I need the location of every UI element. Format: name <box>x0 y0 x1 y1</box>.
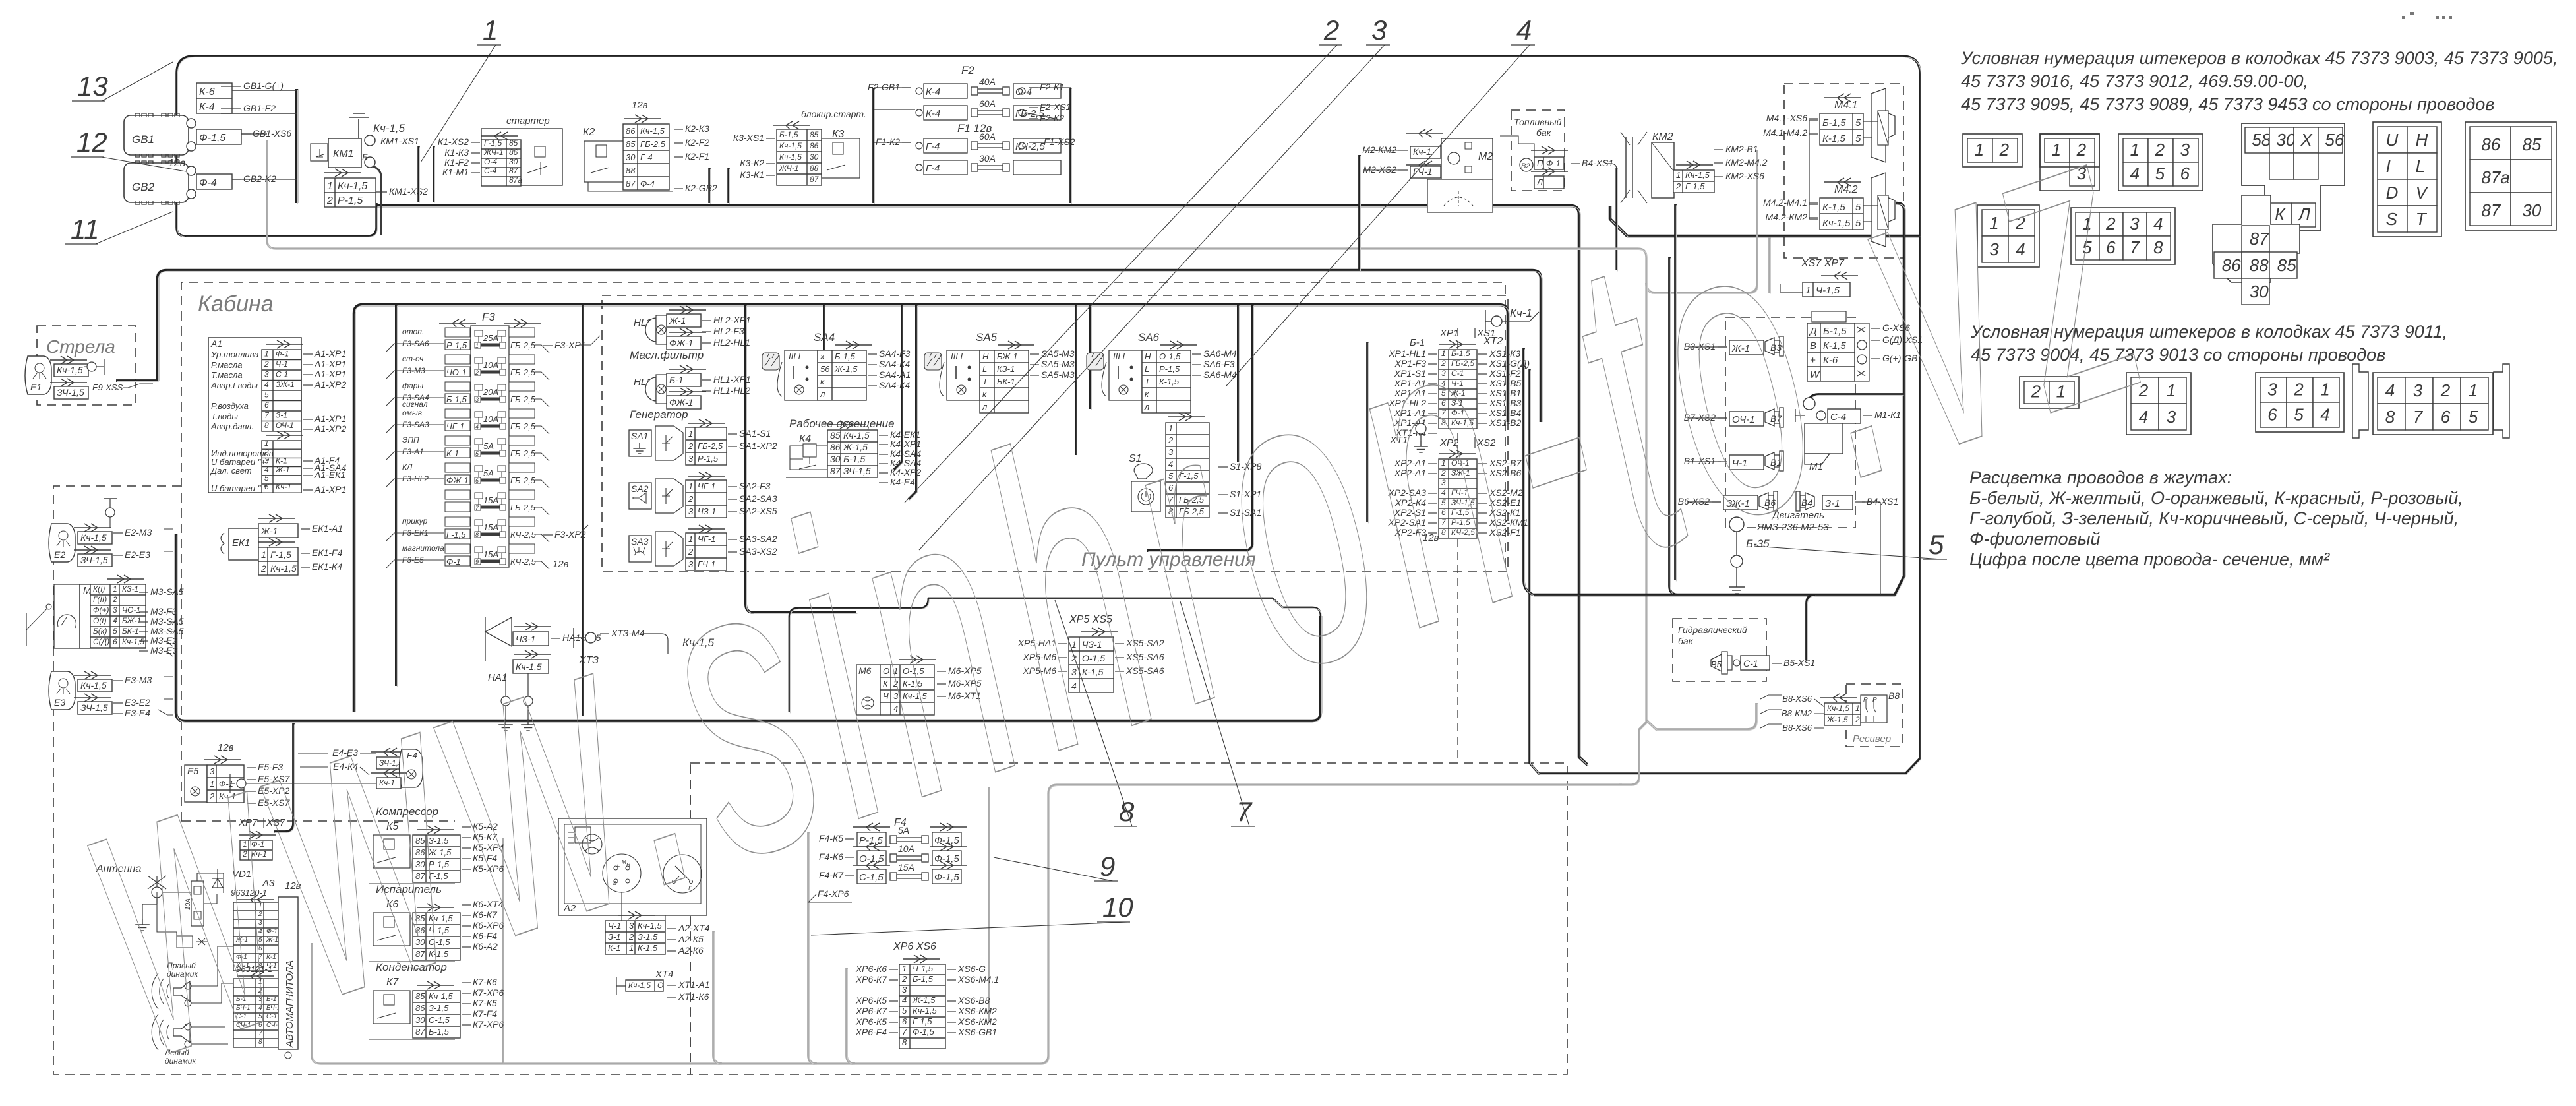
svg-text:F2-К1: F2-К1 <box>1040 82 1064 92</box>
svg-text:стартер: стартер <box>506 115 550 127</box>
lamp E2 <box>49 524 75 562</box>
svg-text:ХР6-К7: ХР6-К7 <box>855 1006 887 1016</box>
svg-text:4: 4 <box>2385 381 2395 400</box>
svg-text:ГБ-2,5: ГБ-2,5 <box>510 503 536 512</box>
svg-text:О(t): О(t) <box>93 616 107 625</box>
svg-text:В5: В5 <box>1711 660 1722 669</box>
wire bus B1 (12V feed) <box>376 206 1588 765</box>
svg-text:85: 85 <box>2277 255 2296 275</box>
svg-text:2: 2 <box>1323 15 1339 46</box>
svg-text:Р-1,5: Р-1,5 <box>698 454 719 464</box>
sensor B6 <box>1723 495 1758 510</box>
bottom-left equipment region <box>53 486 690 1074</box>
svg-text:Ч-1,5: Ч-1,5 <box>913 964 934 973</box>
frame bottom-right return wire <box>185 203 376 236</box>
svg-text:Дал. свет: Дал. свет <box>210 466 252 476</box>
svg-text:С(Д): С(Д) <box>93 637 109 646</box>
connector mating dashed line <box>1457 328 1458 763</box>
svg-text:Е2: Е2 <box>54 549 65 560</box>
svg-text:К1-XS2: К1-XS2 <box>438 137 469 147</box>
hydraulic tank region (Гидравлический бак) <box>1673 619 1766 681</box>
svg-text:XS6-КМ2: XS6-КМ2 <box>957 1016 997 1027</box>
svg-text:К3-XS1: К3-XS1 <box>733 133 764 143</box>
svg-text:3: 3 <box>113 605 117 615</box>
gray branch to M4 motors <box>1646 150 1757 293</box>
svg-text:ГБ-2,5: ГБ-2,5 <box>510 476 536 485</box>
engine region (Двигатель) <box>1725 317 1855 528</box>
svg-text:1: 1 <box>261 549 266 560</box>
svg-text:К2-F2: К2-F2 <box>685 137 709 148</box>
svg-text:Ж-1: Ж-1 <box>275 465 290 474</box>
svg-text:ст-оч: ст-оч <box>402 354 423 363</box>
svg-text:8: 8 <box>2153 237 2163 257</box>
svg-text:к: к <box>820 377 825 386</box>
terminal XT2 <box>1485 310 1491 333</box>
svg-text:М3-SA5: М3-SA5 <box>150 586 184 597</box>
pinout 2pin b <box>2020 377 2079 408</box>
svg-text:SA4-К4: SA4-К4 <box>879 359 910 369</box>
svg-text:Авар.t воды: Авар.t воды <box>210 381 258 390</box>
svg-text:Г-1,5: Г-1,5 <box>270 549 291 560</box>
svg-text:ФЖ-1: ФЖ-1 <box>669 338 693 348</box>
svg-text:86: 86 <box>2222 255 2241 275</box>
svg-text:Б-1,5: Б-1,5 <box>913 974 934 984</box>
sensor B4 <box>1796 491 1814 511</box>
svg-text:1: 1 <box>264 439 269 448</box>
svg-text:О: О <box>657 981 663 990</box>
wire GB2 <box>221 86 297 179</box>
svg-text:Кч-1,5: Кч-1,5 <box>338 181 367 192</box>
pult wire pair SA5 <box>1075 305 1077 455</box>
sensor B5 <box>1711 654 1722 671</box>
KM1 output wire <box>369 165 381 235</box>
callout 2 <box>905 45 1337 503</box>
wire drop to XP7 <box>274 723 293 832</box>
cabin top bus <box>354 305 1508 712</box>
svg-text:1: 1 <box>688 429 693 439</box>
svg-text:30: 30 <box>509 157 518 166</box>
svg-text:85: 85 <box>509 138 518 148</box>
svg-text:Ур.топлива: Ур.топлива <box>210 350 258 359</box>
battery GB1 <box>124 115 189 155</box>
svg-text:М3-Е2: М3-Е2 <box>150 635 177 646</box>
svg-text:Н: Н <box>982 352 989 361</box>
svg-text:T: T <box>2416 209 2428 229</box>
svg-text:1: 1 <box>2130 140 2140 160</box>
svg-text:XS6-М4.1: XS6-М4.1 <box>957 974 999 985</box>
pinout 86 85 87a 87 30 <box>2465 122 2556 230</box>
svg-text:GB2-K2: GB2-K2 <box>243 173 276 184</box>
svg-text:L: L <box>2416 156 2425 176</box>
battery feed wires <box>221 90 297 113</box>
svg-text:60А: 60А <box>979 98 996 109</box>
svg-text:ГБ-2,5: ГБ-2,5 <box>698 441 723 451</box>
svg-text:6: 6 <box>2180 164 2190 183</box>
svg-text:ЕК1-F4: ЕК1-F4 <box>312 547 343 558</box>
svg-text:Б-1: Б-1 <box>669 375 684 385</box>
svg-text:HL2-ХР1: HL2-ХР1 <box>713 315 751 325</box>
gray bus (harness 2) <box>267 140 1646 785</box>
svg-text:магнитола: магнитола <box>402 543 444 553</box>
svg-text:ЖЧ-1: ЖЧ-1 <box>483 148 504 157</box>
svg-text:Г-4: Г-4 <box>926 163 940 174</box>
callout 8 <box>1055 600 1132 826</box>
svg-text:2: 2 <box>112 595 117 604</box>
pult wire pair SA4 <box>894 305 902 470</box>
svg-text:87: 87 <box>509 166 519 175</box>
A2 connector table <box>618 911 655 919</box>
svg-text:56: 56 <box>2325 130 2344 150</box>
pinout 8pin row <box>2071 208 2175 264</box>
lighter EK1 <box>229 528 258 560</box>
svg-text:Г-1,5: Г-1,5 <box>484 138 502 148</box>
callout 5 <box>1754 546 1942 559</box>
instrument cluster A1 <box>208 338 301 493</box>
svg-text:60А: 60А <box>979 131 996 142</box>
svg-text:ГБ-2,5: ГБ-2,5 <box>510 421 536 431</box>
svg-text:30: 30 <box>2522 200 2541 220</box>
svg-text:С-4: С-4 <box>484 166 497 175</box>
svg-text:К(I): К(I) <box>93 584 105 594</box>
svg-text:5: 5 <box>2155 164 2165 183</box>
svg-text:87а: 87а <box>2481 168 2509 187</box>
K1 wire bundles <box>417 146 420 202</box>
svg-text:58: 58 <box>2252 130 2271 150</box>
label F3-XP1 <box>543 345 553 346</box>
chassis frame wire <box>177 56 1920 774</box>
svg-text:К2-GB2: К2-GB2 <box>685 183 717 193</box>
svg-text:GB1-G(+): GB1-G(+) <box>243 80 284 91</box>
gray drop F4 left <box>808 832 817 1064</box>
svg-text:12: 12 <box>76 127 107 158</box>
svg-text:Ж-1,5: Ж-1,5 <box>834 364 858 374</box>
svg-text:8: 8 <box>2385 407 2395 427</box>
pinout 2-pin <box>1963 134 2022 167</box>
svg-text:1: 1 <box>264 350 269 359</box>
svg-text:I: I <box>2386 156 2391 176</box>
battery feed vertical wire <box>295 89 299 203</box>
svg-text:HL2-F3: HL2-F3 <box>713 326 744 336</box>
svg-text:3: 3 <box>475 396 479 403</box>
svg-text:GB1: GB1 <box>132 133 154 146</box>
gray line to XS6 <box>988 787 990 1022</box>
svg-text:S: S <box>2386 209 2398 229</box>
svg-text:F3: F3 <box>482 311 495 323</box>
K2 drop wires <box>708 168 711 203</box>
cabin inner vertical wire x884 <box>582 305 584 716</box>
svg-text:3: 3 <box>1371 15 1387 46</box>
svg-text:Р: Р <box>1872 696 1877 704</box>
svg-text:86: 86 <box>2481 135 2500 154</box>
svg-text:XS6-В8: XS6-В8 <box>957 995 990 1006</box>
svg-text:Кч-1,5: Кч-1,5 <box>373 122 405 135</box>
receiver region (Ресивер) <box>1846 684 1902 747</box>
pinout relay big <box>2242 123 2345 230</box>
svg-text:М2: М2 <box>1478 151 1493 162</box>
callout 3 <box>919 45 1385 550</box>
svg-text:Б(к): Б(к) <box>93 627 107 636</box>
gray bottom loop <box>312 785 1622 1064</box>
svg-text:Ж-1: Ж-1 <box>669 315 686 326</box>
svg-text:8: 8 <box>264 421 269 430</box>
svg-text:30: 30 <box>2250 282 2269 301</box>
svg-text:К-4: К-4 <box>926 86 940 98</box>
svg-text:2: 2 <box>2440 381 2451 400</box>
svg-text:ЭПП: ЭПП <box>402 435 419 445</box>
svg-text:6: 6 <box>113 637 117 646</box>
M4 wires <box>1809 120 1818 219</box>
svg-text:XS6-G: XS6-G <box>957 964 986 974</box>
diode VD1 <box>212 869 223 888</box>
svg-text:Кч-1,5: Кч-1,5 <box>80 532 107 543</box>
svg-text:Ф(+): Ф(+) <box>93 605 109 615</box>
svg-text:А1-ХР1: А1-ХР1 <box>314 484 346 495</box>
svg-text:2: 2 <box>326 195 333 206</box>
svg-text:Ж-1: Ж-1 <box>260 526 278 536</box>
gray drop from A2 area <box>502 838 504 1064</box>
svg-text:5: 5 <box>264 474 269 483</box>
XS1 hook vertical wire <box>1524 348 1534 595</box>
svg-text:Кч-1,5: Кч-1,5 <box>1827 704 1849 713</box>
svg-text:КЗ-1: КЗ-1 <box>122 584 138 594</box>
svg-text:Ф-4: Ф-4 <box>640 179 655 189</box>
svg-text:Кч-1,5: Кч-1,5 <box>779 141 802 150</box>
svg-text:КМ1-XS1: КМ1-XS1 <box>380 136 419 146</box>
battery GB2 <box>124 163 189 202</box>
starter M1 feed cable <box>1808 394 1903 407</box>
svg-text:11: 11 <box>71 214 100 245</box>
svg-text:В2: В2 <box>1521 162 1530 170</box>
svg-text:2: 2 <box>688 441 694 451</box>
svg-text:ХР6-К5: ХР6-К5 <box>855 995 887 1006</box>
svg-text:SA4-А1: SA4-А1 <box>879 369 911 380</box>
svg-text:GB1-XS6: GB1-XS6 <box>253 128 291 138</box>
svg-text:5: 5 <box>113 627 117 636</box>
callout 1 <box>421 45 496 162</box>
svg-text:86: 86 <box>810 141 819 150</box>
cabin region (Кабина) <box>181 282 1505 821</box>
svg-text:3: 3 <box>264 370 269 379</box>
svg-text:4: 4 <box>113 616 117 625</box>
svg-text:Б-1,5: Б-1,5 <box>779 130 798 139</box>
svg-text:4: 4 <box>475 423 479 430</box>
svg-text:КЛ: КЛ <box>402 462 413 472</box>
gray branch to B8 <box>1646 703 1756 729</box>
svg-text:Ф-1,5: Ф-1,5 <box>913 1027 935 1037</box>
svg-text:5: 5 <box>2469 407 2478 427</box>
svg-text:ГБ-2,5: ГБ-2,5 <box>510 394 536 404</box>
svg-text:1: 1 <box>1855 704 1860 713</box>
svg-text:Л: Л <box>2297 204 2310 224</box>
svg-text:ФЖ-1: ФЖ-1 <box>446 476 469 485</box>
cabin inner vertical wire x1131 <box>746 305 856 613</box>
svg-text:Кч-1,5: Кч-1,5 <box>913 1006 938 1016</box>
sensor wires engine <box>1687 347 1880 595</box>
svg-text:SA4-К4: SA4-К4 <box>879 380 910 390</box>
svg-text:ХТ1-А1: ХТ1-А1 <box>678 979 709 990</box>
svg-text:4: 4 <box>902 995 907 1005</box>
svg-text:3: 3 <box>902 985 907 995</box>
fuel sender B2 <box>1520 158 1533 171</box>
sensor B1 <box>1729 455 1764 470</box>
svg-text:13: 13 <box>77 71 108 102</box>
svg-text:87: 87 <box>2250 229 2269 249</box>
svg-text:56: 56 <box>820 364 830 374</box>
svg-text:К2: К2 <box>583 127 595 138</box>
svg-text:15А: 15А <box>483 495 498 505</box>
svg-text:2: 2 <box>901 974 907 984</box>
svg-text:К-1: К-1 <box>276 456 287 466</box>
svg-text:К-6: К-6 <box>199 86 215 98</box>
svg-text:30: 30 <box>626 152 636 162</box>
svg-text:БК-1: БК-1 <box>122 627 139 636</box>
svg-text:А1: А1 <box>210 338 222 349</box>
svg-text:H: H <box>2416 130 2428 150</box>
M2 wiper wire drop <box>1358 155 1361 270</box>
svg-text:Ф-фиолетовый: Ф-фиолетовый <box>1969 529 2101 549</box>
svg-text:SA4: SA4 <box>814 331 835 344</box>
svg-text:15А: 15А <box>483 522 498 532</box>
cabin inner vertical stub x1250 <box>823 305 825 359</box>
svg-text:Г-голубой, З-зеленый, Кч-корич: Г-голубой, З-зеленый, Кч-коричневый, С-с… <box>1969 508 2459 528</box>
svg-text:25А: 25А <box>483 333 498 343</box>
pinout 6-pin <box>2118 134 2203 191</box>
svg-text:ГБ-2,5: ГБ-2,5 <box>510 367 536 377</box>
svg-text:Р-1,5: Р-1,5 <box>338 195 363 206</box>
svg-text:КМ1-XS2: КМ1-XS2 <box>389 186 428 197</box>
svg-text:К-4: К-4 <box>926 108 940 119</box>
svg-text:ГЧ-1: ГЧ-1 <box>1413 166 1433 177</box>
fuse F1 right vertical wire <box>1069 88 1072 203</box>
callout 4 <box>1226 45 1530 386</box>
svg-text:SA5: SA5 <box>976 331 998 344</box>
svg-text:1: 1 <box>2469 381 2478 400</box>
svg-text:88: 88 <box>810 164 819 173</box>
svg-text:ЕК1-К4: ЕК1-К4 <box>312 561 342 572</box>
svg-text:Е1: Е1 <box>30 382 42 392</box>
svg-text:5А: 5А <box>483 441 494 451</box>
svg-text:4: 4 <box>2153 214 2163 233</box>
callout 7 <box>1180 601 1249 826</box>
svg-text:М2-XS2: М2-XS2 <box>1363 164 1396 175</box>
pinout UHILDVST <box>2373 122 2441 237</box>
svg-text:86: 86 <box>509 148 518 157</box>
pinout 6pin b <box>2256 373 2344 432</box>
svg-text:30: 30 <box>810 152 819 162</box>
svg-text:GB1-F2: GB1-F2 <box>243 103 276 113</box>
XP hook vertical wire left <box>1366 342 1369 522</box>
svg-text:D: D <box>2386 183 2399 202</box>
fuse F2 left vertical wire <box>872 88 875 203</box>
svg-text:П: П <box>1537 158 1543 168</box>
svg-text:30А: 30А <box>979 153 996 164</box>
svg-text:сигнал: сигнал <box>402 400 428 409</box>
cabin inner vertical wire x601 <box>395 305 398 686</box>
svg-text:85: 85 <box>2522 135 2541 154</box>
pinout 4pin sq <box>1977 205 2039 267</box>
svg-text:Кч-1: Кч-1 <box>276 482 291 491</box>
svg-text:85: 85 <box>810 130 819 139</box>
svg-text:Стрела: Стрела <box>46 336 115 357</box>
svg-text:А1-ХР2: А1-ХР2 <box>314 423 346 434</box>
svg-text:Т.воды: Т.воды <box>211 412 238 421</box>
svg-text:К: К <box>2275 204 2286 224</box>
svg-text:5: 5 <box>2294 404 2304 424</box>
svg-text:Кч-1,5: Кч-1,5 <box>779 152 802 162</box>
svg-text:2: 2 <box>264 359 269 369</box>
svg-text:отоп.: отоп. <box>402 327 424 336</box>
battery GB2 terminal table <box>196 174 232 189</box>
svg-text:6: 6 <box>264 400 269 410</box>
svg-text:ФЖ-1: ФЖ-1 <box>669 397 693 408</box>
svg-text:Ресивер: Ресивер <box>1853 733 1891 745</box>
svg-text:2: 2 <box>2293 379 2304 399</box>
svg-text:88: 88 <box>2250 255 2269 275</box>
svg-text:ХР6-К5: ХР6-К5 <box>855 1016 887 1027</box>
svg-text:1: 1 <box>113 584 117 594</box>
svg-text:SA1-S1: SA1-S1 <box>739 428 771 439</box>
svg-text:3: 3 <box>2267 379 2277 399</box>
svg-text:Генератор: Генератор <box>630 408 688 421</box>
lamp E3 <box>49 671 75 710</box>
label F3-XP2 <box>543 534 553 536</box>
callout 10 <box>811 922 1127 935</box>
callout 12 <box>102 157 186 171</box>
svg-text:Ф-1,5: Ф-1,5 <box>199 133 225 144</box>
switch SA1 <box>629 430 651 456</box>
svg-text:4: 4 <box>2320 404 2329 424</box>
svg-text:4: 4 <box>2130 164 2140 183</box>
pult inner vertical x1990 <box>1147 305 1253 551</box>
svg-text:12в: 12в <box>632 100 648 111</box>
callout 9 <box>994 857 1113 881</box>
svg-text:3: 3 <box>2130 214 2140 233</box>
svg-text:А1-ХР1: А1-ХР1 <box>314 348 346 359</box>
svg-text:10А: 10А <box>483 414 498 424</box>
svg-text:А1-ЕК1: А1-ЕК1 <box>314 470 345 480</box>
svg-text:бак: бак <box>1536 127 1552 138</box>
svg-text:88: 88 <box>626 166 636 175</box>
svg-text:2: 2 <box>260 563 266 574</box>
svg-text:III I: III I <box>789 352 800 361</box>
svg-text:Кч-1,5: Кч-1,5 <box>640 126 665 136</box>
sensor B7 <box>1729 412 1764 426</box>
svg-text:Масл.фильтр: Масл.фильтр <box>630 349 704 361</box>
svg-text:4: 4 <box>1516 15 1532 46</box>
svg-text:Б-1,5: Б-1,5 <box>835 352 856 361</box>
svg-text:6: 6 <box>475 477 479 484</box>
svg-text:Авар.давл.: Авар.давл. <box>210 421 254 431</box>
svg-text:3: 3 <box>688 454 694 464</box>
speedometer M3 <box>54 584 80 648</box>
svg-text:А1-ХР1: А1-ХР1 <box>314 369 346 379</box>
radio wires <box>162 873 233 1044</box>
svg-text:М3-F3: М3-F3 <box>150 606 177 617</box>
svg-text:Е2-Е3: Е2-Е3 <box>125 549 150 560</box>
svg-text:1: 1 <box>475 342 479 349</box>
svg-text:К2-F1: К2-F1 <box>685 151 709 162</box>
svg-text:III I: III I <box>951 352 963 361</box>
svg-text:ЧО-1: ЧО-1 <box>446 367 466 377</box>
svg-text:КМ1: КМ1 <box>333 148 354 160</box>
svg-text:ХР6-F4: ХР6-F4 <box>855 1027 887 1037</box>
svg-text:4: 4 <box>264 380 269 389</box>
svg-text:бак: бак <box>1678 636 1694 646</box>
svg-text:л: л <box>820 389 825 399</box>
lamp wires to bus <box>158 529 173 715</box>
svg-text:2: 2 <box>2155 140 2165 160</box>
svg-text:В8: В8 <box>1888 691 1900 701</box>
